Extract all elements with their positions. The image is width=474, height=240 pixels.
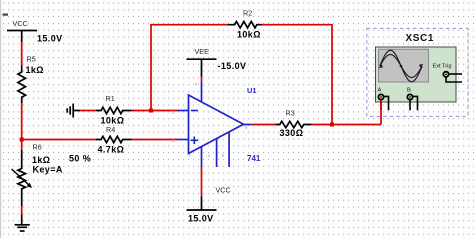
- svg-text:1: 1: [208, 153, 211, 158]
- svg-text:Key=A: Key=A: [33, 164, 63, 174]
- svg-text:R6: R6: [33, 143, 42, 152]
- svg-text:R3: R3: [286, 109, 295, 118]
- svg-text:15.0V: 15.0V: [188, 214, 214, 224]
- svg-text:-15.0V: -15.0V: [218, 61, 247, 71]
- svg-text:1kΩ: 1kΩ: [26, 65, 44, 75]
- svg-text:A: A: [378, 88, 382, 94]
- svg-text:VCC: VCC: [216, 186, 231, 195]
- svg-text:50 %: 50 %: [69, 154, 91, 164]
- svg-text:7: 7: [189, 153, 192, 158]
- svg-text:R4: R4: [106, 125, 115, 134]
- svg-text:R5: R5: [27, 55, 36, 64]
- svg-text:741: 741: [247, 154, 261, 163]
- svg-text:4.7kΩ: 4.7kΩ: [98, 145, 125, 155]
- svg-text:5: 5: [222, 153, 225, 158]
- svg-text:R2: R2: [243, 9, 252, 18]
- svg-text:XSC1: XSC1: [406, 33, 435, 44]
- svg-text:U1: U1: [247, 86, 256, 95]
- svg-text:4: 4: [195, 81, 198, 86]
- svg-text:B: B: [407, 88, 411, 94]
- svg-text:6: 6: [245, 125, 248, 130]
- svg-text:VCC: VCC: [13, 19, 28, 28]
- svg-text:2: 2: [172, 109, 175, 114]
- svg-text:3: 3: [172, 138, 175, 143]
- svg-text:10kΩ: 10kΩ: [237, 29, 261, 39]
- svg-text:VEE: VEE: [195, 47, 210, 56]
- svg-text:R1: R1: [106, 94, 115, 103]
- svg-text:15.0V: 15.0V: [37, 34, 63, 44]
- svg-text:10kΩ: 10kΩ: [101, 116, 125, 126]
- svg-text:Ext Trig: Ext Trig: [433, 64, 452, 70]
- svg-text:330Ω: 330Ω: [280, 128, 304, 138]
